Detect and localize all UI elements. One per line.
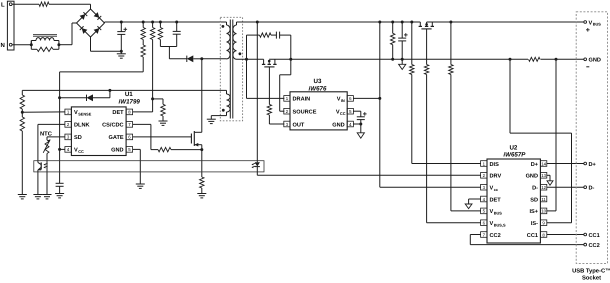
svg-text:DRV: DRV bbox=[490, 174, 502, 180]
svg-text:11: 11 bbox=[541, 197, 546, 202]
svg-text:BUS: BUS bbox=[494, 211, 503, 216]
svg-text:GND: GND bbox=[589, 58, 601, 64]
svg-text:DIS: DIS bbox=[490, 162, 500, 168]
svg-text:N: N bbox=[1, 42, 5, 49]
svg-text:DET: DET bbox=[112, 110, 124, 116]
svg-text:IS+: IS+ bbox=[529, 209, 538, 215]
svg-text:iW1799: iW1799 bbox=[119, 99, 141, 106]
svg-text:NTC: NTC bbox=[40, 130, 53, 137]
svg-text:DET: DET bbox=[490, 197, 502, 203]
svg-text:DRAIN: DRAIN bbox=[293, 97, 311, 103]
svg-text:U1: U1 bbox=[125, 91, 133, 98]
svg-text:IS-: IS- bbox=[531, 221, 538, 227]
svg-text:CC: CC bbox=[340, 111, 346, 116]
svg-text:iW657P: iW657P bbox=[503, 152, 526, 159]
svg-text:SD: SD bbox=[74, 135, 82, 141]
svg-text:GND: GND bbox=[526, 174, 538, 180]
svg-text:USB Type-C™: USB Type-C™ bbox=[572, 268, 610, 275]
svg-text:CS/CDC: CS/CDC bbox=[102, 122, 123, 129]
svg-text:L: L bbox=[1, 2, 5, 9]
svg-text:10: 10 bbox=[541, 209, 546, 214]
svg-text:GATE: GATE bbox=[108, 135, 123, 141]
svg-text:14: 14 bbox=[541, 161, 546, 166]
svg-text:BUS: BUS bbox=[593, 22, 602, 27]
svg-text:CC1: CC1 bbox=[589, 233, 600, 239]
svg-text:SD: SD bbox=[530, 197, 538, 203]
svg-text:12: 12 bbox=[541, 185, 546, 190]
svg-text:iW676: iW676 bbox=[309, 85, 327, 92]
svg-text:U2: U2 bbox=[509, 144, 517, 151]
svg-text:GND: GND bbox=[111, 148, 123, 154]
svg-text:CC: CC bbox=[78, 149, 84, 154]
svg-text:IN: IN bbox=[341, 98, 345, 103]
svg-text:Socket: Socket bbox=[582, 275, 601, 282]
svg-text:CC2: CC2 bbox=[490, 233, 501, 239]
svg-text:DLNK: DLNK bbox=[74, 123, 90, 129]
svg-text:SOURCE: SOURCE bbox=[293, 110, 317, 116]
svg-text:CC1: CC1 bbox=[527, 233, 538, 239]
svg-text:CC2: CC2 bbox=[589, 243, 600, 249]
svg-text:13: 13 bbox=[541, 173, 546, 178]
svg-text:U3: U3 bbox=[314, 78, 322, 85]
svg-text:D-: D- bbox=[589, 186, 595, 192]
svg-text:SENSE: SENSE bbox=[78, 112, 92, 117]
svg-text:GND: GND bbox=[332, 122, 344, 128]
svg-text:BUS,S: BUS,S bbox=[494, 222, 506, 227]
svg-text:OUT: OUT bbox=[293, 122, 305, 128]
svg-text:D+: D+ bbox=[531, 162, 539, 168]
svg-text:D+: D+ bbox=[589, 162, 597, 168]
svg-text:D-: D- bbox=[532, 186, 538, 192]
